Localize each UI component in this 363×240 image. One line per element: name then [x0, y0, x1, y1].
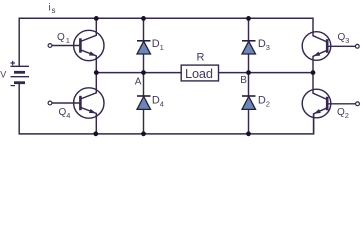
svg-text:A: A — [135, 76, 142, 87]
junction mid Q1/Q4 — [94, 70, 99, 75]
junction top rail D3 — [246, 16, 251, 21]
junction bottom rail D4 — [141, 131, 146, 136]
diode D2 — [242, 96, 256, 109]
wire D1 column — [143, 18, 145, 72]
diode D4 — [137, 96, 151, 109]
battery plus mark — [11, 61, 16, 66]
wire mid: load to node B — [219, 72, 249, 74]
svg-text:1: 1 — [66, 36, 70, 45]
wire D2 column — [248, 73, 250, 134]
diode D3 — [242, 41, 256, 54]
svg-text:V: V — [0, 70, 6, 80]
svg-text:4: 4 — [66, 111, 70, 120]
transistor Q2 — [302, 73, 359, 134]
transistor Q1 — [48, 18, 104, 72]
svg-text:2: 2 — [266, 100, 270, 109]
transistor Q4 — [48, 73, 104, 134]
battery V — [11, 66, 30, 82]
wire D4 column — [143, 73, 145, 134]
resistor R load box — [181, 65, 218, 81]
svg-text:i: i — [49, 2, 51, 13]
wire mid left: Q1/Q4 junction to node A — [96, 72, 143, 74]
junction bottom rail Q4 — [93, 131, 98, 136]
wire D3 column — [248, 18, 250, 72]
diode D1 — [137, 41, 151, 54]
svg-text:D: D — [152, 95, 160, 107]
svg-text:4: 4 — [160, 100, 164, 109]
wire top rail — [19, 18, 313, 66]
node A — [141, 70, 146, 75]
junction bottom rail D2 — [246, 131, 251, 136]
battery minus mark — [11, 85, 16, 87]
svg-text:2: 2 — [345, 111, 349, 120]
wire mid: node A to load — [144, 72, 182, 74]
svg-text:D: D — [258, 38, 266, 50]
svg-text:D: D — [152, 38, 160, 50]
svg-text:Q: Q — [57, 32, 65, 43]
wire bottom rail — [19, 83, 313, 134]
transistor Q3 — [302, 32, 359, 73]
svg-text:3: 3 — [266, 43, 270, 52]
junction top rail D1 — [141, 16, 146, 21]
svg-text:1: 1 — [160, 43, 164, 52]
svg-text:B: B — [240, 75, 247, 86]
svg-text:s: s — [52, 6, 56, 15]
svg-text:Load: Load — [185, 66, 213, 81]
junction mid Q3/Q2 — [311, 70, 316, 75]
svg-text:D: D — [258, 95, 266, 107]
node B — [246, 70, 251, 75]
junction top rail Q1 — [94, 16, 99, 21]
svg-text:R: R — [197, 52, 205, 64]
svg-text:3: 3 — [345, 36, 349, 45]
wire mid right: node B to Q3/Q2 junction — [249, 72, 314, 74]
